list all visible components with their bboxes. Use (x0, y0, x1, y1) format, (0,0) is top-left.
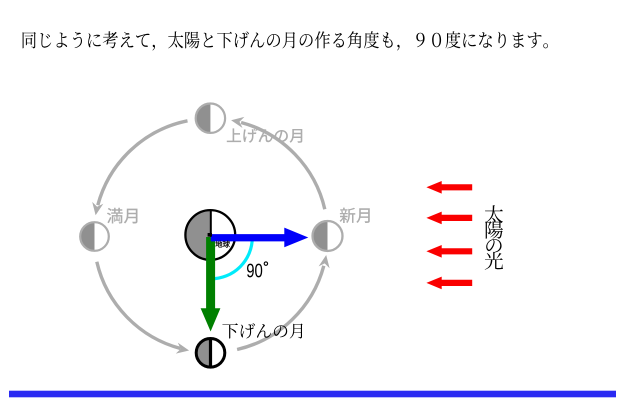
label first-quarter moon (227, 128, 302, 142)
new moon (right) (313, 221, 343, 251)
sunlight label (vertical) (485, 205, 503, 269)
label full moon (107, 208, 138, 224)
earth (185, 210, 235, 260)
bottom blue bar (9, 391, 616, 398)
orbit arc right-to-top (241, 123, 325, 210)
full moon (left) (80, 222, 109, 251)
label last-quarter moon (222, 323, 302, 338)
earth tiny label (215, 241, 229, 248)
sunlight red arrow 2 (426, 212, 472, 225)
first-quarter moon (top) (196, 104, 225, 133)
orbit arc top-to-left (98, 121, 188, 205)
orbit arrowhead near full moon (92, 202, 103, 215)
last-quarter moon (bottom) (196, 339, 225, 368)
blue arrow to new moon (211, 228, 308, 248)
green arrow to last-quarter moon (201, 237, 221, 332)
heading text (23, 31, 548, 50)
label new moon (340, 208, 370, 224)
90 degree label (247, 264, 262, 278)
orbit arc bottom-to-right (237, 266, 324, 350)
sunlight red arrow 4 (426, 277, 472, 290)
sunlight red arrow 1 (426, 181, 472, 194)
orbit arrowhead near last-quarter moon (176, 343, 189, 354)
orbit arc left-to-bottom (97, 262, 181, 349)
center junction dot (208, 233, 212, 237)
sunlight red arrow 3 (426, 245, 472, 258)
orbit arrowhead near new moon (319, 255, 330, 268)
90 degree arc (211, 238, 252, 279)
orbit arrowhead near first-quarter moon (231, 117, 244, 128)
earth radius line (210, 211, 212, 239)
